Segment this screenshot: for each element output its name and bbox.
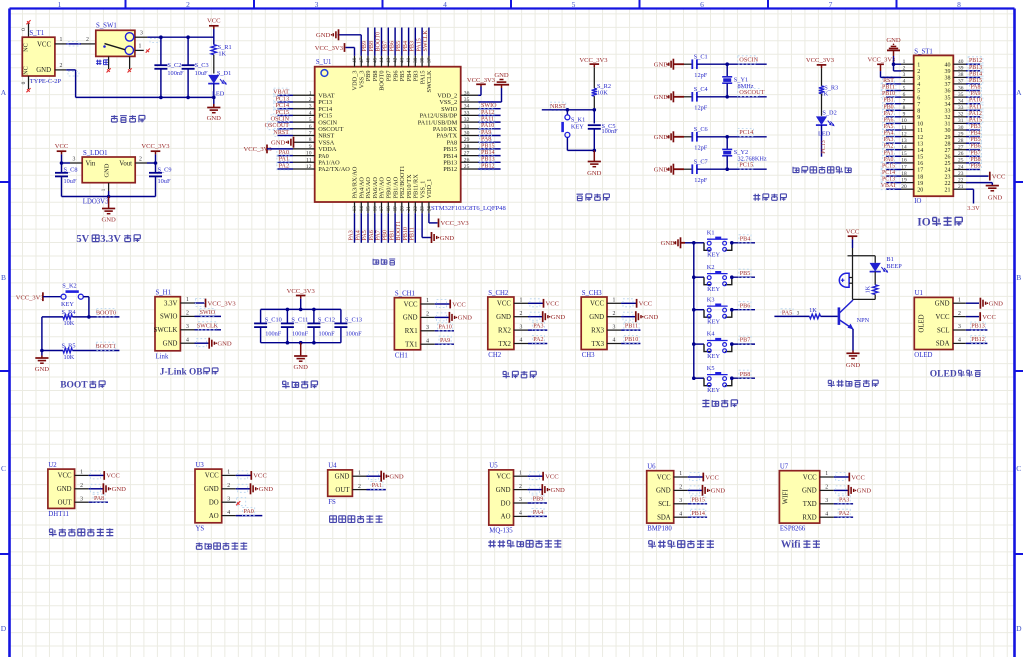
svg-text:GND: GND: [886, 37, 901, 44]
svg-text:16: 16: [917, 161, 923, 167]
svg-text:PB15: PB15: [691, 497, 705, 503]
svg-text:CH2: CH2: [488, 352, 501, 359]
svg-text:19: 19: [393, 206, 399, 212]
svg-text:VCC_3V3: VCC_3V3: [141, 143, 170, 150]
svg-text:VCC: VCC: [37, 41, 51, 48]
svg-text:SCL: SCL: [937, 327, 949, 334]
svg-text:8: 8: [903, 105, 906, 111]
svg-text:S_D2: S_D2: [822, 110, 836, 117]
svg-text:KEY: KEY: [707, 252, 720, 259]
svg-text:3: 3: [825, 498, 828, 504]
svg-text:OLED: OLED: [914, 352, 932, 359]
svg-text:1: 1: [519, 298, 522, 304]
svg-text:VCC: VCC: [639, 301, 653, 308]
svg-text:18: 18: [386, 206, 392, 212]
svg-text:SWCLK: SWCLK: [423, 30, 429, 52]
svg-text:S_K2: S_K2: [62, 282, 76, 289]
svg-text:29: 29: [945, 135, 951, 141]
svg-text:PC14: PC14: [739, 129, 754, 136]
svg-text:VCC_3V3: VCC_3V3: [467, 77, 496, 84]
svg-text:4: 4: [443, 0, 447, 9]
svg-text:PA6: PA6: [369, 230, 375, 240]
svg-text:22: 22: [958, 177, 964, 183]
svg-text:3: 3: [227, 496, 230, 502]
svg-text:KEY: KEY: [707, 387, 720, 394]
svg-text:GND: GND: [654, 134, 669, 141]
svg-text:12pF: 12pF: [694, 145, 707, 152]
svg-text:3: 3: [140, 31, 143, 37]
svg-text:3: 3: [186, 324, 189, 330]
svg-text:GND: GND: [294, 364, 309, 371]
svg-text:38: 38: [945, 76, 951, 82]
svg-text:PB11: PB11: [625, 324, 638, 330]
svg-text:OSCIN: OSCIN: [739, 57, 758, 64]
svg-text:6: 6: [309, 124, 312, 130]
svg-text:10uF: 10uF: [64, 178, 77, 185]
svg-text:2: 2: [958, 311, 961, 317]
svg-text:IO: IO: [917, 216, 930, 228]
svg-text:4: 4: [825, 511, 828, 517]
svg-text:10: 10: [917, 122, 923, 128]
svg-text:4: 4: [679, 511, 682, 517]
svg-text:WIFI: WIFI: [782, 489, 789, 504]
svg-text:S_C1: S_C1: [694, 54, 708, 61]
svg-text:KEY: KEY: [61, 301, 74, 308]
svg-text:VCC_3V3: VCC_3V3: [868, 57, 896, 64]
svg-text:37: 37: [427, 57, 433, 63]
svg-text:2: 2: [186, 311, 189, 317]
svg-text:S_C2: S_C2: [167, 62, 181, 69]
svg-text:30: 30: [945, 128, 951, 134]
svg-text:VCC: VCC: [452, 301, 466, 308]
svg-text:S_ST1: S_ST1: [914, 48, 933, 55]
svg-text:GND: GND: [587, 170, 602, 177]
svg-text:5: 5: [903, 85, 906, 91]
svg-text:S_SW1: S_SW1: [96, 22, 117, 29]
svg-text:39: 39: [413, 57, 419, 63]
svg-text:PB9: PB9: [533, 497, 544, 503]
svg-text:12: 12: [901, 131, 907, 137]
svg-text:RXD: RXD: [802, 515, 816, 522]
svg-text:OSCOUT: OSCOUT: [739, 89, 764, 96]
svg-text:4: 4: [309, 110, 312, 116]
svg-text:3.3V: 3.3V: [100, 234, 121, 245]
svg-text:VCC: VCC: [546, 301, 560, 308]
svg-text:1: 1: [613, 298, 616, 304]
svg-text:27: 27: [464, 151, 470, 157]
svg-text:1: 1: [139, 44, 142, 50]
svg-text:S_U1: S_U1: [316, 59, 332, 66]
svg-text:4: 4: [613, 338, 616, 344]
svg-text:24: 24: [945, 168, 951, 174]
svg-text:8: 8: [957, 0, 961, 9]
svg-text:PB5: PB5: [396, 41, 402, 52]
svg-text:10uF: 10uF: [158, 178, 171, 185]
svg-text:38: 38: [420, 57, 426, 63]
svg-text:3: 3: [797, 310, 800, 316]
svg-text:PA0: PA0: [244, 509, 254, 515]
svg-text:S_H1: S_H1: [156, 290, 172, 297]
svg-text:TX2: TX2: [498, 341, 511, 348]
svg-text:20: 20: [917, 187, 923, 193]
svg-text:OUT: OUT: [335, 487, 350, 494]
svg-text:10K: 10K: [64, 354, 75, 361]
svg-text:13: 13: [901, 138, 907, 144]
svg-text:4: 4: [227, 510, 230, 516]
svg-text:GND: GND: [654, 94, 669, 101]
svg-text:40: 40: [958, 59, 964, 65]
svg-text:PA10: PA10: [438, 324, 451, 330]
svg-text:TYPE-C-2P: TYPE-C-2P: [30, 78, 62, 85]
svg-text:34: 34: [958, 99, 964, 105]
svg-text:GND: GND: [259, 486, 274, 493]
svg-text:100nF: 100nF: [319, 330, 336, 337]
svg-text:GND: GND: [846, 362, 861, 369]
svg-text:DHT11: DHT11: [48, 511, 69, 518]
svg-text:S_C3: S_C3: [195, 62, 209, 69]
svg-text:30: 30: [958, 125, 964, 131]
svg-text:PB6: PB6: [389, 41, 395, 52]
svg-text:PA5: PA5: [362, 230, 368, 240]
svg-text:33: 33: [958, 105, 964, 111]
svg-text:NRST: NRST: [550, 103, 566, 110]
svg-text:GND: GND: [656, 488, 671, 495]
svg-text:CH1: CH1: [395, 352, 408, 359]
svg-text:11: 11: [306, 157, 312, 163]
svg-text:S_LDO1: S_LDO1: [83, 150, 108, 157]
svg-text:1: 1: [825, 471, 828, 477]
svg-text:34: 34: [945, 102, 951, 108]
svg-text:14: 14: [901, 145, 907, 151]
svg-text:GND: GND: [316, 32, 331, 39]
svg-text:23: 23: [958, 171, 964, 177]
svg-text:S_C9: S_C9: [158, 166, 172, 173]
svg-text:25: 25: [958, 158, 964, 164]
svg-text:PB7: PB7: [383, 41, 389, 52]
svg-text:SDA: SDA: [657, 515, 671, 522]
svg-text:BOOT: BOOT: [60, 381, 88, 391]
svg-text:13: 13: [352, 206, 358, 212]
svg-text:4: 4: [519, 338, 522, 344]
svg-text:S_C12: S_C12: [318, 317, 335, 324]
svg-text:PB6: PB6: [740, 303, 751, 309]
svg-text:K4: K4: [707, 331, 716, 338]
svg-text:PA2: PA2: [839, 511, 849, 517]
svg-text:29: 29: [958, 131, 964, 137]
svg-text:35: 35: [958, 92, 964, 98]
svg-text:24: 24: [958, 164, 964, 170]
svg-text:47: 47: [359, 57, 365, 63]
svg-text:PA2: PA2: [533, 337, 543, 343]
svg-text:GND: GND: [163, 341, 178, 348]
svg-text:30: 30: [464, 131, 470, 137]
svg-text:U1: U1: [915, 290, 923, 297]
svg-text:GND: GND: [35, 366, 50, 373]
svg-text:U7: U7: [780, 464, 789, 471]
svg-text:13: 13: [917, 141, 923, 147]
svg-text:8MHz: 8MHz: [738, 83, 754, 90]
svg-text:KEY: KEY: [571, 123, 584, 130]
svg-text:2: 2: [309, 97, 312, 103]
svg-text:2: 2: [139, 156, 142, 162]
svg-text:1: 1: [358, 470, 361, 476]
svg-text:1: 1: [426, 298, 429, 304]
svg-text:KEY: KEY: [707, 286, 720, 293]
svg-text:8: 8: [309, 137, 312, 143]
svg-text:48: 48: [352, 57, 358, 63]
svg-text:37: 37: [945, 82, 951, 88]
svg-text:3: 3: [613, 324, 616, 330]
svg-text:10K: 10K: [64, 320, 75, 327]
svg-text:0: 0: [21, 28, 27, 31]
svg-text:PB4: PB4: [403, 41, 409, 52]
svg-text:17: 17: [917, 168, 923, 174]
svg-text:GND: GND: [589, 314, 604, 321]
svg-text:K1: K1: [707, 229, 715, 236]
svg-text:SCL: SCL: [658, 501, 670, 508]
svg-text:K5: K5: [707, 365, 715, 372]
svg-text:18: 18: [917, 174, 923, 180]
svg-text:2: 2: [358, 484, 361, 490]
svg-text:VDD_1: VDD_1: [426, 179, 433, 199]
svg-text:4: 4: [903, 79, 906, 85]
svg-text:16: 16: [372, 206, 378, 212]
svg-text:PB4: PB4: [740, 236, 751, 242]
svg-text:CH3: CH3: [582, 352, 595, 359]
svg-text:BOOT1: BOOT1: [396, 221, 402, 241]
svg-text:PB11: PB11: [410, 227, 416, 240]
svg-text:PA5: PA5: [782, 310, 792, 316]
svg-text:VCC: VCC: [58, 473, 72, 480]
svg-text:26: 26: [958, 151, 964, 157]
svg-text:36: 36: [958, 85, 964, 91]
svg-text:3: 3: [309, 104, 312, 110]
svg-text:28: 28: [958, 138, 964, 144]
svg-text:39: 39: [958, 66, 964, 72]
svg-text:B: B: [1, 273, 6, 282]
svg-text:PA2: PA2: [279, 163, 289, 169]
svg-text:AO: AO: [209, 513, 219, 520]
svg-text:S_D1: S_D1: [217, 70, 231, 77]
svg-text:32: 32: [958, 112, 964, 118]
svg-text:28: 28: [945, 141, 951, 147]
svg-text:GND: GND: [661, 240, 676, 247]
svg-text:1: 1: [60, 37, 63, 43]
svg-text:U6: U6: [647, 464, 656, 471]
svg-text:GND: GND: [112, 486, 127, 493]
svg-text:3: 3: [679, 498, 682, 504]
svg-text:GND: GND: [403, 315, 418, 322]
svg-text:3: 3: [426, 325, 429, 331]
svg-text:17: 17: [379, 206, 385, 212]
svg-text:NC: NC: [23, 66, 30, 75]
svg-text:SWCLK: SWCLK: [426, 70, 433, 92]
svg-text:GND: GND: [496, 314, 511, 321]
svg-text:4: 4: [917, 82, 920, 88]
svg-text:40: 40: [945, 62, 951, 68]
svg-text:TX3: TX3: [592, 341, 605, 348]
svg-text:GND: GND: [551, 314, 566, 321]
svg-text:PB7: PB7: [740, 338, 751, 344]
svg-text:OSCOUT: OSCOUT: [265, 123, 290, 129]
svg-text:GND: GND: [104, 163, 111, 177]
svg-text:2: 2: [426, 312, 429, 318]
svg-text:DO: DO: [501, 500, 511, 507]
svg-text:32: 32: [945, 115, 951, 121]
svg-text:5: 5: [917, 89, 920, 95]
svg-text:8: 8: [917, 109, 920, 115]
svg-text:3: 3: [958, 324, 961, 330]
svg-text:1: 1: [58, 0, 62, 9]
svg-text:PB10: PB10: [625, 337, 639, 343]
svg-text:S_C6: S_C6: [694, 126, 708, 133]
svg-text:3: 3: [917, 76, 920, 82]
svg-text:GND: GND: [207, 115, 222, 122]
svg-text:29: 29: [464, 137, 470, 143]
svg-text:GND: GND: [101, 217, 116, 224]
svg-text:3: 3: [80, 496, 83, 502]
svg-text:PA2/TX/AO: PA2/TX/AO: [318, 166, 350, 173]
svg-text:1: 1: [186, 297, 189, 303]
svg-text:U5: U5: [489, 463, 498, 470]
svg-text:100nF: 100nF: [167, 70, 184, 77]
svg-text:VCC: VCC: [545, 474, 559, 481]
svg-text:TXD: TXD: [803, 501, 817, 508]
svg-text:BOOT0: BOOT0: [376, 32, 382, 52]
svg-text:KEY: KEY: [707, 319, 720, 326]
svg-text:U3: U3: [196, 462, 205, 469]
svg-text:7: 7: [903, 99, 906, 105]
svg-text:B: B: [1016, 273, 1021, 282]
svg-text:7: 7: [917, 102, 920, 108]
svg-text:2: 2: [613, 311, 616, 317]
svg-text:VCC: VCC: [846, 229, 860, 236]
svg-text:10K: 10K: [597, 90, 608, 97]
svg-text:36: 36: [464, 90, 470, 96]
svg-text:A: A: [1016, 88, 1022, 97]
svg-text:1: 1: [519, 470, 522, 476]
svg-text:D: D: [1, 624, 7, 633]
svg-text:PA9: PA9: [971, 91, 981, 97]
svg-text:S_C11: S_C11: [291, 317, 308, 324]
svg-text:VCC: VCC: [590, 301, 604, 308]
svg-text:3: 3: [903, 72, 906, 78]
svg-text:11: 11: [917, 128, 923, 134]
svg-text:24: 24: [427, 206, 433, 212]
svg-text:11: 11: [901, 125, 906, 131]
svg-text:S_C4: S_C4: [694, 86, 709, 93]
svg-text:S_C10: S_C10: [265, 317, 282, 324]
svg-text:43: 43: [386, 57, 392, 63]
svg-text:PA12: PA12: [969, 111, 982, 117]
svg-text:SWIO: SWIO: [200, 310, 216, 316]
svg-text:9: 9: [309, 144, 312, 150]
svg-text:0: 0: [21, 81, 27, 84]
svg-text:GND: GND: [494, 72, 509, 79]
svg-text:PB5: PB5: [740, 271, 751, 277]
svg-text:3: 3: [73, 156, 76, 162]
svg-text:28: 28: [464, 144, 470, 150]
svg-text:D: D: [1016, 624, 1022, 633]
svg-text:PC15: PC15: [739, 162, 753, 169]
svg-text:PA8: PA8: [481, 137, 491, 143]
svg-text:KEY: KEY: [707, 353, 720, 360]
svg-text:S_C13: S_C13: [345, 317, 362, 324]
svg-text:26: 26: [464, 157, 470, 163]
svg-text:LED: LED: [212, 90, 225, 97]
svg-text:PB11: PB11: [882, 85, 895, 91]
svg-text:PA9: PA9: [481, 130, 491, 136]
svg-text:12pF: 12pF: [694, 105, 707, 112]
svg-text:PB8: PB8: [369, 41, 375, 52]
svg-text:3: 3: [519, 497, 522, 503]
svg-text:4: 4: [426, 338, 429, 344]
svg-text:12pF: 12pF: [694, 177, 707, 184]
svg-text:PA1: PA1: [279, 157, 289, 163]
svg-text:VCC: VCC: [936, 314, 950, 321]
svg-text:S_T1: S_T1: [29, 30, 44, 37]
svg-text:1: 1: [917, 62, 920, 68]
svg-text:2: 2: [86, 37, 89, 43]
svg-text:C: C: [1016, 464, 1021, 473]
svg-text:4: 4: [958, 338, 961, 344]
svg-text:1: 1: [80, 470, 83, 476]
svg-text:Vin: Vin: [86, 161, 96, 168]
svg-text:LDO3V3: LDO3V3: [83, 199, 109, 206]
svg-text:VCC_3V3: VCC_3V3: [208, 300, 237, 307]
svg-text:YS: YS: [196, 525, 205, 532]
svg-text:40: 40: [406, 57, 412, 63]
svg-text:GND: GND: [711, 488, 726, 495]
svg-text:PB14: PB14: [691, 511, 705, 517]
svg-text:BMP180: BMP180: [647, 526, 672, 533]
svg-text:VCC_3V3: VCC_3V3: [287, 288, 316, 295]
svg-text:4: 4: [519, 511, 522, 517]
svg-text:PB12: PB12: [443, 166, 457, 173]
svg-text:AO: AO: [501, 514, 511, 521]
svg-text:9: 9: [903, 112, 906, 118]
svg-text:PA0: PA0: [279, 150, 289, 156]
svg-text:S_R5: S_R5: [62, 343, 76, 350]
svg-text:Link: Link: [156, 353, 169, 360]
svg-text:VBAT: VBAT: [881, 183, 897, 189]
svg-text:GND: GND: [271, 140, 286, 147]
svg-text:VCC: VCC: [497, 474, 511, 481]
svg-text:GND: GND: [989, 301, 1004, 308]
svg-text:NC: NC: [23, 43, 30, 52]
svg-text:6: 6: [917, 95, 920, 101]
svg-text:VCC: VCC: [253, 473, 267, 480]
svg-text:VCC: VCC: [803, 474, 817, 481]
svg-text:VCC_3V3: VCC_3V3: [315, 45, 344, 52]
svg-text:21: 21: [958, 184, 964, 190]
svg-text:VCC_3V3: VCC_3V3: [806, 57, 835, 64]
svg-text:10: 10: [306, 151, 312, 157]
svg-text:IO: IO: [914, 198, 921, 205]
svg-text:PA7: PA7: [376, 230, 382, 240]
svg-text:23: 23: [420, 206, 426, 212]
svg-text:45: 45: [372, 57, 378, 63]
svg-text:GND: GND: [654, 62, 669, 69]
svg-text:GND: GND: [389, 474, 404, 481]
svg-text:2: 2: [227, 483, 230, 489]
svg-text:2: 2: [917, 69, 920, 75]
svg-text:3.3V: 3.3V: [967, 205, 980, 212]
svg-text:100nF: 100nF: [292, 330, 309, 337]
svg-text:39: 39: [945, 69, 951, 75]
svg-text:S_CH3: S_CH3: [582, 290, 603, 297]
svg-text:VCC: VCC: [982, 314, 996, 321]
